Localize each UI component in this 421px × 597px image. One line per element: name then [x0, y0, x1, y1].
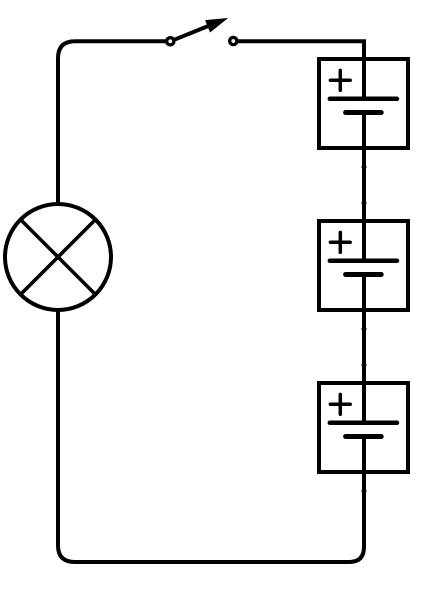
junction: battery B2 lead / wire joint [362, 327, 367, 332]
junction: battery B1 lead / wire joint [362, 165, 367, 170]
junction: wire / battery B3 lead joint [362, 363, 367, 368]
wire: main loop from switch left terminal, down left side, along bottom, up to battery B3 [58, 41, 364, 562]
switch S1 lever with arrowhead [170, 19, 226, 42]
battery cell B3 [319, 383, 408, 472]
battery cell B1 [319, 59, 408, 148]
junction: battery B3 lead / wire joint [362, 489, 367, 494]
lamp L1 [5, 204, 111, 310]
wire: battery B2 positive plate up to battery B1 negative plate [362, 113, 366, 261]
wire: battery B1 positive plate up and left to switch right terminal [233, 41, 364, 99]
junction: wire / battery B2 lead joint [362, 201, 367, 206]
battery cell B2 [319, 221, 408, 310]
wire: battery B3 positive plate up to battery B2 negative plate [362, 275, 366, 423]
switch S1 right terminal [230, 37, 237, 44]
switch S1 left terminal [167, 38, 174, 45]
